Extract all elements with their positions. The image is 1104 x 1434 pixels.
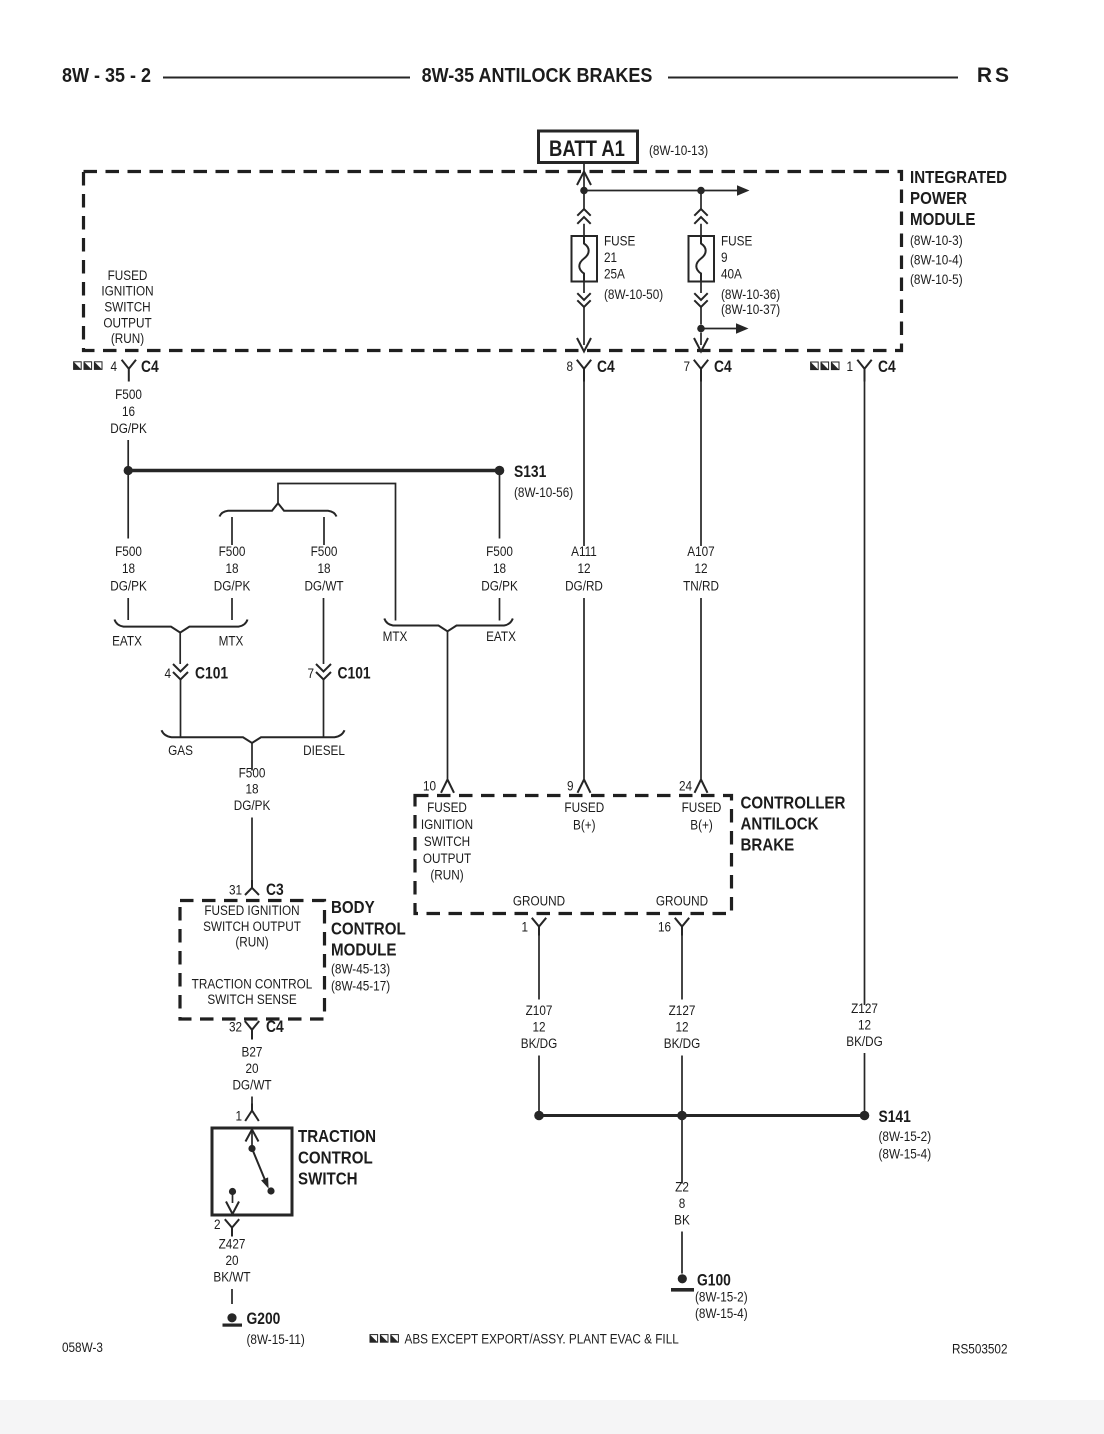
svg-text:(RUN): (RUN) xyxy=(430,867,463,883)
svg-text:18: 18 xyxy=(122,560,135,576)
svg-text:B(+): B(+) xyxy=(573,817,596,833)
svg-text:DG/WT: DG/WT xyxy=(304,578,343,594)
svg-text:S141: S141 xyxy=(879,1108,912,1126)
svg-text:C4: C4 xyxy=(597,358,615,376)
svg-text:G100: G100 xyxy=(697,1271,731,1289)
svg-text:(8W-15-2): (8W-15-2) xyxy=(695,1289,748,1305)
svg-text:4: 4 xyxy=(110,358,117,374)
svg-text:7: 7 xyxy=(307,665,314,681)
svg-text:2: 2 xyxy=(214,1216,221,1232)
svg-text:(8W-10-3): (8W-10-3) xyxy=(910,232,963,248)
svg-text:MTX: MTX xyxy=(383,628,408,644)
svg-text:C101: C101 xyxy=(338,664,372,682)
svg-text:IGNITION: IGNITION xyxy=(421,816,473,832)
svg-text:32: 32 xyxy=(229,1019,242,1035)
svg-text:(8W-10-13): (8W-10-13) xyxy=(649,142,708,158)
svg-text:4: 4 xyxy=(164,665,171,681)
svg-text:12: 12 xyxy=(675,1019,688,1035)
svg-text:DIESEL: DIESEL xyxy=(303,742,345,758)
svg-text:A111: A111 xyxy=(571,543,597,559)
svg-text:(8W-10-5): (8W-10-5) xyxy=(910,271,963,287)
svg-text:FUSED IGNITION: FUSED IGNITION xyxy=(204,902,299,918)
svg-text:DG/RD: DG/RD xyxy=(565,578,603,594)
svg-text:F500: F500 xyxy=(219,543,246,559)
svg-text:8: 8 xyxy=(679,1195,686,1211)
svg-text:12: 12 xyxy=(858,1017,871,1033)
svg-text:(8W-45-13): (8W-45-13) xyxy=(331,961,390,977)
svg-text:24: 24 xyxy=(679,778,692,794)
svg-text:16: 16 xyxy=(658,919,671,935)
svg-text:SWITCH: SWITCH xyxy=(298,1168,358,1189)
svg-text:8: 8 xyxy=(566,358,573,374)
svg-text:(RUN): (RUN) xyxy=(111,330,144,346)
svg-text:IGNITION: IGNITION xyxy=(101,283,153,299)
svg-text:TRACTION: TRACTION xyxy=(298,1126,376,1147)
svg-text:TRACTION CONTROL: TRACTION CONTROL xyxy=(192,976,313,992)
svg-text:DG/PK: DG/PK xyxy=(110,420,147,436)
svg-text:SWITCH: SWITCH xyxy=(104,299,150,315)
svg-text:(8W-15-4): (8W-15-4) xyxy=(879,1146,932,1162)
svg-text:CONTROL: CONTROL xyxy=(298,1147,373,1168)
svg-text:FUSED: FUSED xyxy=(682,799,722,815)
svg-text:C3: C3 xyxy=(266,881,284,899)
svg-text:SWITCH OUTPUT: SWITCH OUTPUT xyxy=(203,918,301,934)
svg-text:20: 20 xyxy=(225,1252,238,1268)
svg-text:12: 12 xyxy=(577,560,590,576)
svg-text:B27: B27 xyxy=(242,1044,263,1060)
svg-text:BATT A1: BATT A1 xyxy=(549,138,625,162)
svg-text:18: 18 xyxy=(225,560,238,576)
svg-text:(8W-15-2): (8W-15-2) xyxy=(879,1128,932,1144)
svg-text:18: 18 xyxy=(493,560,506,576)
svg-text:(8W-10-37): (8W-10-37) xyxy=(721,301,780,317)
svg-text:A107: A107 xyxy=(687,543,714,559)
svg-text:8W-35 ANTILOCK BRAKES: 8W-35 ANTILOCK BRAKES xyxy=(422,65,653,87)
svg-text:MODULE: MODULE xyxy=(331,939,396,960)
svg-text:1: 1 xyxy=(846,358,853,374)
svg-text:CONTROLLER: CONTROLLER xyxy=(741,792,846,813)
svg-text:S131: S131 xyxy=(514,463,547,481)
svg-text:16: 16 xyxy=(122,403,135,419)
svg-text:INTEGRATED: INTEGRATED xyxy=(910,167,1007,188)
svg-text:F500: F500 xyxy=(311,543,338,559)
svg-text:9: 9 xyxy=(567,778,574,794)
svg-text:RS503502: RS503502 xyxy=(952,1341,1007,1357)
svg-text:C4: C4 xyxy=(714,358,732,376)
svg-text:12: 12 xyxy=(694,560,707,576)
svg-text:F500: F500 xyxy=(115,386,142,402)
svg-text:ABS EXCEPT EXPORT/ASSY. PLANT: ABS EXCEPT EXPORT/ASSY. PLANT EVAC & FIL… xyxy=(405,1331,679,1347)
svg-text:EATX: EATX xyxy=(112,633,142,649)
svg-text:(8W-10-56): (8W-10-56) xyxy=(514,484,573,500)
svg-text:C101: C101 xyxy=(195,664,229,682)
svg-text:MODULE: MODULE xyxy=(910,209,975,230)
svg-text:FUSED: FUSED xyxy=(427,799,467,815)
svg-text:18: 18 xyxy=(317,560,330,576)
svg-text:(RUN): (RUN) xyxy=(235,934,268,950)
svg-text:BK/DG: BK/DG xyxy=(846,1033,883,1049)
svg-text:BODY: BODY xyxy=(331,897,375,918)
svg-text:25A: 25A xyxy=(604,266,625,282)
svg-text:Z127: Z127 xyxy=(669,1002,696,1018)
svg-text:12: 12 xyxy=(532,1019,545,1035)
svg-text:(8W-10-4): (8W-10-4) xyxy=(910,252,963,268)
svg-text:CONTROL: CONTROL xyxy=(331,918,406,939)
svg-text:Z127: Z127 xyxy=(851,1000,878,1016)
svg-text:DG/PK: DG/PK xyxy=(481,578,518,594)
svg-text:(8W-10-50): (8W-10-50) xyxy=(604,286,663,302)
svg-text:GAS: GAS xyxy=(168,742,193,758)
svg-text:20: 20 xyxy=(245,1060,258,1076)
svg-text:21: 21 xyxy=(604,249,617,265)
svg-text:(8W-15-4): (8W-15-4) xyxy=(695,1305,748,1321)
svg-text:POWER: POWER xyxy=(910,188,967,209)
svg-text:(8W-10-36): (8W-10-36) xyxy=(721,286,780,302)
svg-text:GROUND: GROUND xyxy=(656,893,708,909)
svg-text:7: 7 xyxy=(683,358,690,374)
svg-text:18: 18 xyxy=(245,781,258,797)
svg-text:C4: C4 xyxy=(878,358,896,376)
svg-text:(8W-45-17): (8W-45-17) xyxy=(331,978,390,994)
svg-text:058W-3: 058W-3 xyxy=(62,1339,103,1355)
svg-text:OUTPUT: OUTPUT xyxy=(423,850,471,866)
svg-text:1: 1 xyxy=(521,919,528,935)
svg-text:EATX: EATX xyxy=(486,628,516,644)
svg-text:Z107: Z107 xyxy=(526,1002,553,1018)
svg-text:F500: F500 xyxy=(115,543,142,559)
svg-text:C4: C4 xyxy=(266,1018,284,1036)
svg-text:8W - 35 - 2: 8W - 35 - 2 xyxy=(62,65,151,87)
svg-text:GROUND: GROUND xyxy=(513,893,565,909)
svg-text:RS: RS xyxy=(977,64,1012,87)
svg-text:FUSED: FUSED xyxy=(108,267,148,283)
svg-text:DG/WT: DG/WT xyxy=(232,1077,271,1093)
svg-text:31: 31 xyxy=(229,882,242,898)
svg-text:DG/PK: DG/PK xyxy=(214,578,251,594)
svg-text:C4: C4 xyxy=(141,358,159,376)
svg-text:BK: BK xyxy=(674,1212,690,1228)
svg-text:FUSED: FUSED xyxy=(564,799,604,815)
svg-text:9: 9 xyxy=(721,249,728,265)
svg-text:B(+): B(+) xyxy=(690,817,713,833)
svg-text:MTX: MTX xyxy=(219,633,244,649)
svg-text:TN/RD: TN/RD xyxy=(683,578,719,594)
svg-text:FUSE: FUSE xyxy=(721,233,753,249)
svg-text:FUSE: FUSE xyxy=(604,233,636,249)
svg-text:Z2: Z2 xyxy=(675,1179,689,1195)
svg-text:F500: F500 xyxy=(486,543,513,559)
svg-text:ANTILOCK: ANTILOCK xyxy=(741,813,819,834)
svg-text:G200: G200 xyxy=(247,1310,281,1328)
svg-text:SWITCH: SWITCH xyxy=(424,833,470,849)
svg-text:Z427: Z427 xyxy=(219,1236,246,1252)
svg-text:1: 1 xyxy=(235,1108,242,1124)
svg-text:40A: 40A xyxy=(721,266,742,282)
svg-text:BK/DG: BK/DG xyxy=(664,1035,701,1051)
svg-text:SWITCH SENSE: SWITCH SENSE xyxy=(207,991,297,1007)
svg-text:(8W-15-11): (8W-15-11) xyxy=(247,1331,305,1347)
svg-text:BK/DG: BK/DG xyxy=(521,1035,558,1051)
svg-text:DG/PK: DG/PK xyxy=(110,578,147,594)
svg-text:10: 10 xyxy=(423,778,436,794)
svg-text:OUTPUT: OUTPUT xyxy=(103,315,151,331)
svg-text:DG/PK: DG/PK xyxy=(234,797,271,813)
svg-text:BRAKE: BRAKE xyxy=(741,834,795,855)
svg-text:F500: F500 xyxy=(239,765,266,781)
svg-text:BK/WT: BK/WT xyxy=(213,1269,250,1285)
